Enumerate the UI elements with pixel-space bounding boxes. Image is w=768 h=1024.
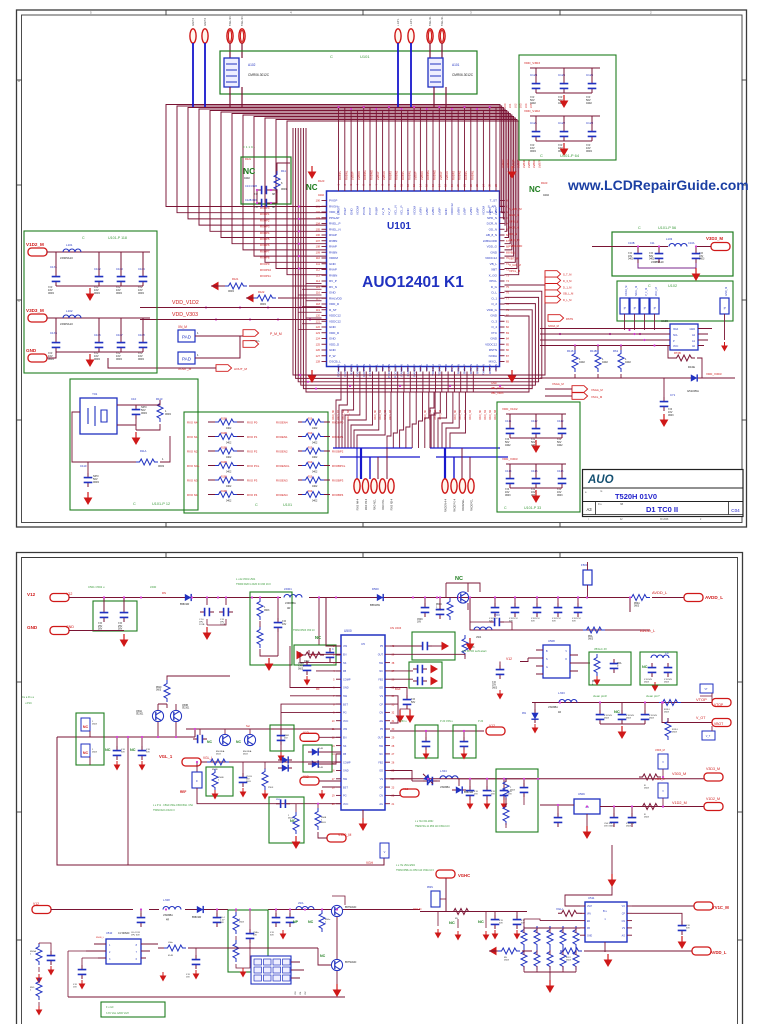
net tag V12 right of U500 xyxy=(400,789,419,797)
svg-text:T5060 R5Bu 11 R50 110 C50A 1: T5060 R5Bu 11 R50 110 C50A 10 F xyxy=(396,869,435,872)
wire NC box feed xyxy=(89,731,91,765)
power flag C5D3 xyxy=(193,970,200,980)
svg-text:75: 75 xyxy=(506,285,509,289)
svg-text:0603: 0603 xyxy=(92,724,98,726)
resistor R518 xyxy=(262,768,268,790)
junction dots mid xyxy=(425,730,427,732)
svg-text:0603: 0603 xyxy=(298,668,304,670)
svg-text:V_OT: V_OT xyxy=(696,716,706,720)
svg-text:NC: NC xyxy=(306,183,318,192)
resistor R506 xyxy=(447,598,453,620)
svg-text:0603: 0603 xyxy=(668,414,674,417)
svg-text:0603: 0603 xyxy=(664,682,670,684)
junction dots i2c xyxy=(574,344,576,346)
capacitor C550 xyxy=(596,710,605,724)
resistor R52x xyxy=(462,635,468,657)
svg-text:X R: X R xyxy=(254,194,258,196)
svg-text:R/GP 0: R/GP 0 xyxy=(204,18,207,26)
svg-text:U102: U102 xyxy=(668,284,677,288)
svg-text:VDD_D: VDD_D xyxy=(329,342,340,346)
mosfet Q503a xyxy=(219,734,230,745)
svg-text:VCC: VCC xyxy=(673,345,678,348)
svg-text:LVB5P: LVB5P xyxy=(527,159,531,168)
svg-text:LVBN: LVBN xyxy=(456,207,460,215)
capacitor C561 xyxy=(610,813,619,827)
svg-text:50V: 50V xyxy=(686,928,690,930)
svg-text:SI2301: SI2301 xyxy=(136,714,144,716)
svg-text:VCL_P: VCL_P xyxy=(400,205,404,215)
svg-text:110: 110 xyxy=(316,256,321,260)
wire blue drops group B xyxy=(444,448,446,479)
power wedge right snub xyxy=(442,642,450,651)
svg-text:RVBNL: RVBNL xyxy=(407,170,411,180)
svg-text:RXO_N0: RXO_N0 xyxy=(454,409,457,420)
power flag left b xyxy=(36,1006,43,1016)
svg-text:COMP: COMP xyxy=(343,678,351,681)
svg-text:RXOENCL: RXOENCL xyxy=(276,464,290,468)
capacitor C520 xyxy=(418,642,432,651)
capacitor C548 xyxy=(648,663,657,677)
wire bottom wrap bundle under U101 xyxy=(293,128,545,375)
svg-text:VTOP: VTOP xyxy=(714,703,724,707)
svg-text:VDD_V1D2: VDD_V1D2 xyxy=(524,109,540,113)
svg-text:0402: 0402 xyxy=(312,442,318,445)
svg-text:U101: U101 xyxy=(360,54,370,59)
wire staircase down to blue bus group B xyxy=(430,392,434,448)
component box mid cap B xyxy=(453,725,476,758)
svg-text:L GP 1: L GP 1 xyxy=(397,18,400,26)
svg-text:R10B: R10B xyxy=(221,462,227,464)
junction dots page1 xyxy=(337,106,339,108)
power flag IC4 top xyxy=(608,874,617,887)
svg-text:V3D2_M: V3D2_M xyxy=(655,778,665,781)
svg-text:2: 2 xyxy=(700,519,702,521)
svg-text:RXO PCL: RXO PCL xyxy=(247,464,260,468)
svg-text:VDD_V1D2: VDD_V1D2 xyxy=(502,407,518,411)
svg-text:J52: J52 xyxy=(305,991,307,995)
svg-text:0603: 0603 xyxy=(239,922,245,924)
svg-text:SW: SW xyxy=(379,745,384,748)
svg-text:RVAP: RVAP xyxy=(329,268,337,272)
wire V1D2 rail xyxy=(540,805,704,807)
svg-text:Q50A: Q50A xyxy=(136,710,142,713)
svg-text:L5906BA: L5906BA xyxy=(163,914,173,917)
svg-text:PVBP: PVBP xyxy=(375,207,379,215)
svg-text:0603: 0603 xyxy=(116,291,122,295)
svg-text:78: 78 xyxy=(506,302,509,306)
svg-text:RVBN: RVBN xyxy=(329,273,337,277)
power flag gnd C527 xyxy=(467,800,474,810)
svg-text:128: 128 xyxy=(316,360,321,364)
svg-text:V12: V12 xyxy=(27,592,36,597)
capacitor C522 xyxy=(413,677,427,686)
svg-text:VDD_V303: VDD_V303 xyxy=(172,312,198,318)
svg-text:L500: L500 xyxy=(150,585,157,589)
svg-text:0402: 0402 xyxy=(226,485,232,488)
capacitor C591 xyxy=(513,915,522,929)
svg-text:C114: C114 xyxy=(505,469,512,473)
svg-text:NXDA_M: NXDA_M xyxy=(548,324,559,328)
wire V1D2_M rail xyxy=(47,251,150,253)
svg-text:R10: R10 xyxy=(308,433,313,435)
svg-text:R52N: R52N xyxy=(427,887,433,889)
svg-text:S_APL_M: S_APL_M xyxy=(509,207,522,211)
wire main mid rail xyxy=(57,729,195,737)
wire IC4 right YV1C xyxy=(632,905,694,907)
svg-text:C113: C113 xyxy=(557,419,564,423)
svg-text:RXO P4 4: RXO P4 4 xyxy=(365,498,368,510)
component box U101 chokes xyxy=(220,51,477,94)
resistor grid bottom bus xyxy=(524,971,576,973)
resistor R526 xyxy=(498,948,520,954)
wire staircase down to blue bus group A xyxy=(336,392,341,448)
transistor Q501 xyxy=(152,710,163,721)
svg-text:VBL_V1D2: VBL_V1D2 xyxy=(491,387,504,390)
capacitor C546 xyxy=(574,603,583,617)
svg-text:P 20 C5N u: P 20 C5N u xyxy=(440,720,453,723)
svg-text:NC: NC xyxy=(105,748,111,752)
power flag RC box xyxy=(295,836,297,838)
svg-text:S_T_M: S_T_M xyxy=(563,273,571,277)
svg-text:RV_N: RV_N xyxy=(329,285,337,289)
resistor R510 xyxy=(659,700,681,706)
svg-text:REF: REF xyxy=(180,790,186,794)
svg-text:C116: C116 xyxy=(557,469,564,473)
wire bus ring around U101 xyxy=(166,105,505,207)
wire pull resistor bus bottom xyxy=(540,377,735,379)
svg-text:C: C xyxy=(133,502,136,506)
svg-text:V12: V12 xyxy=(506,657,512,661)
wire choke A101 leads xyxy=(433,87,435,107)
svg-text:0603: 0603 xyxy=(138,357,144,361)
svg-text:RXOP6: RXOP6 xyxy=(260,243,270,247)
svg-text:1: 1 xyxy=(325,922,327,924)
svg-text:RVN_N: RVN_N xyxy=(469,364,473,374)
net tag VGHC xyxy=(436,870,455,878)
svg-text:19: 19 xyxy=(332,795,335,798)
svg-text:C10B: C10B xyxy=(628,241,635,245)
svg-text:NC: NC xyxy=(614,709,620,714)
svg-text:C103: C103 xyxy=(116,267,123,271)
svg-text:CMR06.3012C: CMR06.3012C xyxy=(452,73,474,77)
svg-text:PVVN: PVVN xyxy=(362,207,366,215)
svg-text:VDD_G: VDD_G xyxy=(487,308,498,312)
inductor L506 xyxy=(651,655,669,658)
svg-text:B5T50A0D: B5T50A0D xyxy=(345,961,357,964)
wire blue drops group A xyxy=(360,448,362,479)
svg-text:NB: NB xyxy=(620,504,624,506)
svg-text:121: 121 xyxy=(316,319,321,323)
wire VDD_V1D2 xyxy=(140,307,327,309)
svg-text:RSTN: RSTN xyxy=(489,348,497,352)
resistor RA4 bottom xyxy=(573,948,579,970)
svg-text:R/GP 0: R/GP 0 xyxy=(192,18,195,26)
svg-text:C04: C04 xyxy=(731,508,740,513)
svg-text:C106: C106 xyxy=(94,333,101,337)
svg-text:GND_M: GND_M xyxy=(725,287,728,296)
svg-text:0402: 0402 xyxy=(586,101,592,105)
capacitor C543 xyxy=(511,603,520,617)
svg-text:0603: 0603 xyxy=(664,712,670,714)
power wedge AVDD row xyxy=(489,947,497,956)
svg-text:RVBPL: RVBPL xyxy=(464,170,468,180)
wire crystal network xyxy=(117,400,160,430)
svg-text:B5819W: B5819W xyxy=(192,916,202,919)
wire pad XOUT_M xyxy=(195,336,240,358)
power flags REF xyxy=(212,790,219,800)
resistor R5D2 xyxy=(164,945,186,951)
svg-text:RXOEN4: RXOEN4 xyxy=(276,421,288,425)
svg-text:GND: GND xyxy=(329,291,337,295)
component box REF filter xyxy=(206,767,233,796)
svg-text:U101-P 33: U101-P 33 xyxy=(524,506,541,510)
svg-text:P5DF: P5DF xyxy=(268,787,274,789)
capacitor C560 xyxy=(554,813,563,827)
svg-text:U101-P 118: U101-P 118 xyxy=(108,236,127,240)
svg-text:0402: 0402 xyxy=(625,360,631,364)
svg-text:AOUT_M: AOUT_M xyxy=(234,367,247,371)
svg-text:RXN: RXN xyxy=(494,364,498,370)
svg-text:L102: L102 xyxy=(66,309,73,313)
svg-text:0402: 0402 xyxy=(244,176,250,180)
svg-text:0603: 0603 xyxy=(141,411,147,415)
svg-text:AVDD_L: AVDD_L xyxy=(640,628,656,633)
wire IC4 top loop xyxy=(585,845,612,895)
page 1 border tick marks xyxy=(165,10,167,16)
svg-text:RXO N1: RXO N1 xyxy=(187,435,198,439)
svg-text:OUT: OUT xyxy=(378,654,384,657)
wire VGHC drop xyxy=(445,878,447,912)
svg-text:EN: EN xyxy=(587,921,591,923)
svg-text:r: r xyxy=(588,518,589,521)
svg-text:PXCL_N: PXCL_N xyxy=(482,364,486,376)
svg-text:RN: RN xyxy=(162,591,166,595)
power flag gnd C501 xyxy=(120,634,129,647)
svg-text:0603: 0603 xyxy=(158,464,164,468)
svg-text:0603: 0603 xyxy=(504,960,510,962)
svg-text:PXCL_ON: PXCL_ON xyxy=(387,364,391,378)
svg-text:NC: NC xyxy=(455,576,463,582)
resistor R5D xyxy=(36,978,42,1000)
svg-text:u P1C: u P1C xyxy=(25,702,32,705)
svg-text:T_ST: T_ST xyxy=(490,199,498,203)
power flag gnd crystal xyxy=(132,432,141,445)
svg-text:L u E C501 L: L u E C501 L501 xyxy=(236,577,256,581)
wire P33 row2 gnd xyxy=(510,487,562,489)
diode pair D511 xyxy=(421,771,436,786)
power flag C573 xyxy=(278,752,285,762)
svg-text:0402: 0402 xyxy=(505,444,511,447)
svg-text:BST: BST xyxy=(343,703,348,706)
svg-text:G51005A: G51005A xyxy=(687,389,699,393)
svg-text:C: C xyxy=(504,506,507,510)
svg-text:RXO_N0: RXO_N0 xyxy=(332,409,335,420)
svg-text:R10: R10 xyxy=(308,448,313,450)
svg-text:GND: GND xyxy=(490,250,498,254)
label box VBOT xyxy=(702,731,715,740)
svg-text:50V: 50V xyxy=(146,752,150,754)
svg-text:BST: BST xyxy=(343,786,348,789)
svg-text:C112: C112 xyxy=(531,419,538,423)
power flag C571 xyxy=(139,761,146,771)
svg-text:1: 1 xyxy=(197,331,199,335)
component box U101-P 64 decoupling caps xyxy=(519,55,616,160)
page 2 sheet border inner xyxy=(22,558,738,1024)
svg-text:0603: 0603 xyxy=(505,494,511,497)
svg-text:C: C xyxy=(540,153,543,158)
svg-text:1: 1 xyxy=(30,954,32,956)
svg-text:LVBP: LVBP xyxy=(494,208,498,215)
svg-text:LVB7P: LVB7P xyxy=(537,159,541,168)
power flag left a xyxy=(48,966,55,976)
svg-text:R10: R10 xyxy=(308,462,313,464)
svg-text:RVBP2: RVBP2 xyxy=(451,170,455,180)
svg-text:0402: 0402 xyxy=(543,193,549,197)
svg-text:RXNGN: RXNGN xyxy=(349,364,353,375)
power flag gnd C528 xyxy=(484,800,491,810)
wire softstart internals xyxy=(260,632,278,656)
wire blue bus row B xyxy=(430,448,508,457)
svg-text:RXO N4: RXO N4 xyxy=(187,493,198,497)
svg-text:FB2: FB2 xyxy=(378,678,383,681)
capacitor C5Ra xyxy=(246,929,255,943)
power flag gnd P56 xyxy=(692,268,701,281)
svg-text:V3D3_M: V3D3_M xyxy=(706,236,723,241)
wire IC4 bottom xyxy=(604,942,606,952)
svg-text:P 20: P 20 xyxy=(478,720,484,723)
capacitor C545 xyxy=(554,603,563,617)
svg-text:50V: 50V xyxy=(552,621,556,623)
power flag gnd U101-P 64 row1 xyxy=(560,95,569,108)
svg-text:X_GO: X_GO xyxy=(489,273,498,277)
capacitor C5B4 xyxy=(213,913,222,927)
connector pins top group B choke pair xyxy=(427,29,433,43)
wire AVDD_L bottom row xyxy=(489,950,692,952)
resistor R5DA left xyxy=(36,943,42,965)
svg-text:L u YE: L u YE L50L E50J xyxy=(415,821,433,823)
svg-text:RXOENEL: RXOENEL xyxy=(462,498,465,511)
svg-text:16V: 16V xyxy=(186,977,190,979)
svg-text:LVB0P: LVB0P xyxy=(351,171,355,180)
svg-text:RXOBP4: RXOBP4 xyxy=(332,493,344,497)
resistor RA1 bottom xyxy=(534,948,540,970)
wire left bundle to lower pins xyxy=(306,283,322,285)
wire AVDD branch down xyxy=(470,598,650,631)
svg-text:RVEL_N: RVEL_N xyxy=(329,227,341,231)
component box V303 filter xyxy=(496,769,538,832)
resistor R519a xyxy=(293,812,299,834)
svg-text:NC: NC xyxy=(642,665,648,669)
wire left links xyxy=(39,943,86,997)
svg-text:5: 5 xyxy=(90,11,92,15)
svg-text:XPCL: XPCL xyxy=(489,279,497,283)
svg-text:SI2301: SI2301 xyxy=(182,708,190,710)
svg-text:16V: 16V xyxy=(282,623,287,626)
svg-text:L5906BA: L5906BA xyxy=(548,706,558,709)
svg-text:PXCL_OP: PXCL_OP xyxy=(393,364,397,378)
svg-text:O_1: O_1 xyxy=(491,296,497,300)
junction dots V12 rail xyxy=(103,596,105,598)
svg-text:Vul: Vul xyxy=(311,653,315,657)
power flag C592 xyxy=(678,936,687,949)
svg-text:CN UIC6: CN UIC6 xyxy=(390,626,402,630)
power wedge sense xyxy=(297,651,305,660)
resistor R527 xyxy=(560,948,582,954)
diode D507b xyxy=(278,764,292,771)
net tag VTOP xyxy=(712,699,731,707)
svg-text:VCOM: VCOM xyxy=(412,205,416,215)
svg-text:0603: 0603 xyxy=(492,687,498,689)
svg-text:NC: NC xyxy=(315,635,321,640)
wire crystal left loop xyxy=(72,412,170,462)
svg-text:L103: L103 xyxy=(666,237,673,241)
svg-text:LVB0P: LVB0P xyxy=(414,171,418,180)
svg-text:0603: 0603 xyxy=(156,690,162,692)
capacitor C545 xyxy=(490,618,504,627)
svg-text:108: 108 xyxy=(316,245,321,249)
svg-text:VB_L: VB_L xyxy=(509,250,516,254)
svg-text:85: 85 xyxy=(506,342,509,346)
choke A101 xyxy=(428,58,443,87)
resistor R517 xyxy=(212,769,218,791)
svg-text:0603: 0603 xyxy=(48,291,54,295)
svg-text:F500: F500 xyxy=(581,563,588,567)
svg-text:XSDA_M: XSDA_M xyxy=(625,286,628,296)
svg-text:C: C xyxy=(332,648,334,651)
svg-text:NXCL_M: NXCL_M xyxy=(635,286,638,296)
svg-text:GND: GND xyxy=(343,770,349,773)
svg-text:113: 113 xyxy=(316,273,321,277)
svg-text:A102: A102 xyxy=(248,63,256,67)
power flag gnd C525 xyxy=(461,750,468,760)
svg-text:RVBN2: RVBN2 xyxy=(458,170,462,180)
svg-text:F: F xyxy=(196,779,198,783)
test pad U102-2 xyxy=(630,298,639,314)
svg-text:L u P t1 . C50A: L u P t1 . C50A C50a C50/C50A. C5A xyxy=(153,804,193,807)
capacitor C546 xyxy=(496,665,505,679)
svg-text:VGH: VGH xyxy=(556,907,563,911)
svg-text:RVBNL: RVBNL xyxy=(344,170,348,180)
svg-text:0603: 0603 xyxy=(626,718,632,720)
svg-text:0603: 0603 xyxy=(93,480,99,484)
svg-text:XN_M: XN_M xyxy=(178,325,187,329)
svg-text:RXNG3P: RXNG3P xyxy=(368,364,372,376)
mosfet Q503b xyxy=(244,734,255,745)
svg-text:V3D3_M: V3D3_M xyxy=(706,767,720,771)
capacitor C526 xyxy=(423,777,437,786)
svg-text:TXEL N4: TXEL N4 xyxy=(241,16,244,26)
svg-text:23: 23 xyxy=(392,786,395,789)
svg-text:R10: R10 xyxy=(308,477,313,479)
svg-text:RXO P4: RXO P4 xyxy=(247,493,258,497)
svg-text:R11A: R11A xyxy=(140,449,147,453)
svg-text:C501 C502 u: C501 C502 u xyxy=(88,585,105,589)
resistor R503 xyxy=(257,626,263,648)
resistor R525 xyxy=(558,910,580,916)
power flag AVDD branch xyxy=(466,638,475,651)
svg-text:83: 83 xyxy=(506,331,509,335)
svg-text:VGHC: VGHC xyxy=(458,873,470,878)
svg-text:RVBPL: RVBPL xyxy=(338,170,342,180)
svg-text:74: 74 xyxy=(506,279,509,283)
ic U500 body xyxy=(341,635,385,810)
power flag C570 xyxy=(114,761,121,771)
svg-text:V1D2_M: V1D2_M xyxy=(26,242,44,247)
wire VTOP rail xyxy=(532,702,712,704)
svg-text:29: 29 xyxy=(392,737,395,740)
svg-text:RV_P: RV_P xyxy=(329,279,337,283)
power flag gnd C546 xyxy=(497,690,504,700)
